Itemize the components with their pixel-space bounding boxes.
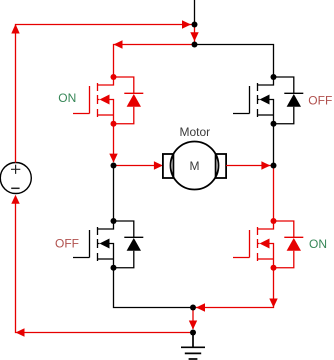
node: Q2 source junction <box>271 121 277 127</box>
arrowhead: down at bottom-right corner <box>269 299 277 308</box>
arrowhead: up at top-left corner <box>11 24 19 34</box>
Q3 body arrow <box>98 244 114 268</box>
arrowhead: left at rail corner <box>114 40 123 48</box>
Q3 gate lead <box>73 257 90 259</box>
transistor Q4 (low-side right, conducting) <box>233 218 303 271</box>
transistor Q3 (low-side left, off) <box>73 218 143 271</box>
node: Q4 source junction <box>271 265 277 271</box>
Q4 source contact <box>258 258 274 260</box>
wire: ground junction left and up to battery negative (red) <box>16 201 194 333</box>
node: ground rail junction <box>190 305 196 311</box>
wire: top supply feed (black vertical from top edge) <box>194 0 196 25</box>
Q4 body arrow <box>258 244 274 268</box>
wire: Q1 source down to motor left node (red) <box>113 124 115 163</box>
Q2 body arrow <box>258 100 274 124</box>
node: Q3 source junction <box>111 265 117 271</box>
wire: red rail left to Q1 drain <box>114 45 195 78</box>
wire: Q2 source to motor right node (black) <box>273 124 275 166</box>
Q4 channel dashes <box>257 227 259 261</box>
node: supply top junction <box>192 22 198 28</box>
svg-text:OFF: OFF <box>55 236 79 250</box>
svg-text:M: M <box>190 159 200 173</box>
Q2 gate lead <box>233 113 250 115</box>
node: Q1 drain junction <box>111 74 117 80</box>
Q2 drain lead <box>258 77 274 85</box>
node: Q3 drain junction <box>111 218 117 224</box>
Q1 channel dashes <box>97 83 99 117</box>
wire: ground node down to ground junction (red) <box>192 308 194 330</box>
node: ground junction <box>190 330 196 336</box>
Q3 channel dashes <box>97 227 99 261</box>
node: motor left junction <box>111 163 117 169</box>
Q1 body arrow <box>98 100 114 124</box>
svg-text:Motor: Motor <box>179 125 210 139</box>
Q1 gate lead <box>73 113 90 115</box>
svg-text:ON: ON <box>309 237 327 251</box>
arrowhead: right into motor right node <box>261 161 270 169</box>
wire: Q3 source down and right to ground node (black) <box>114 268 194 308</box>
motor left brush <box>163 154 174 178</box>
arrowhead: down into motor left node <box>109 154 117 163</box>
Q3 drain lead <box>98 221 114 229</box>
arrowhead: right into motor left brush <box>154 161 163 169</box>
arrowhead: right into top node <box>182 20 191 28</box>
transistor Q1 (high-side left, conducting) <box>73 74 143 127</box>
wire: motor left node down to Q3 drain (black) <box>113 166 115 222</box>
Q3 gate bar <box>89 230 91 258</box>
wire: motor left node into motor (red) <box>114 165 155 167</box>
arrowhead: down into ground junction <box>189 321 197 330</box>
wire: motor right node down to Q4 drain (red) <box>273 166 275 222</box>
node: VCC rail junction <box>192 42 198 48</box>
Q1 source contact <box>98 114 114 116</box>
svg-text:OFF: OFF <box>308 94 332 108</box>
node: motor right junction <box>271 163 277 169</box>
Q2 channel dashes <box>257 83 259 117</box>
motor M1 <box>163 125 226 190</box>
motor right brush <box>216 154 227 178</box>
voltage source V1 <box>0 163 31 194</box>
Q3 source contact <box>98 258 114 260</box>
Q4 body diode D4 <box>274 221 304 268</box>
transistor Q2 (high-side right, off) <box>233 74 303 127</box>
Q4 gate bar <box>249 230 251 258</box>
wire: Q4 source down and left to ground node (red) <box>196 268 274 308</box>
node: Q1 source junction <box>111 121 117 127</box>
Q2 gate bar <box>249 86 251 114</box>
arrowhead: down into VCC rail node <box>190 32 198 41</box>
Q2 body diode D2 <box>274 77 304 124</box>
motor body circle <box>171 142 219 190</box>
Q1 drain lead <box>98 77 114 85</box>
wire: red drop from top node <box>194 25 196 45</box>
Q4 gate lead <box>233 257 250 259</box>
arrowhead: left into ground rail node <box>196 303 205 311</box>
ground symbol <box>181 333 205 360</box>
node: Q4 drain junction <box>271 218 277 224</box>
arrowhead: left at bottom-left corner <box>16 328 25 336</box>
Q4 drain lead <box>258 221 274 229</box>
Q2 source contact <box>258 114 274 116</box>
Q1 gate bar <box>89 86 91 114</box>
Q3 body diode D3 <box>114 221 144 268</box>
wire: black top rail to Q2 drain <box>195 45 274 78</box>
arrowhead: up into battery negative terminal <box>11 195 19 204</box>
svg-text:ON: ON <box>58 91 76 105</box>
Q1 body diode D1 <box>114 77 144 124</box>
node: Q2 drain junction <box>271 74 277 80</box>
wire: red current path, battery + up left rail <box>16 25 195 163</box>
wire: motor to right rail node (red) <box>226 165 270 167</box>
